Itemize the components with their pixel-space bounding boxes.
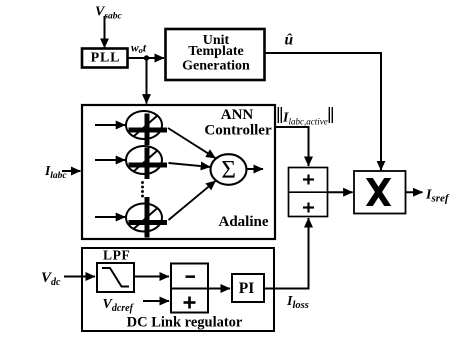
svg-text:DC Link regulator: DC Link regulator bbox=[127, 315, 243, 331]
svg-text:û: û bbox=[285, 31, 294, 48]
svg-text:Vdc: Vdc bbox=[41, 270, 61, 288]
svg-text:Vdcref: Vdcref bbox=[103, 297, 135, 314]
svg-text:Σ: Σ bbox=[221, 156, 236, 183]
svg-text:Ilabc,active: Ilabc,active bbox=[282, 111, 328, 127]
svg-text:PI: PI bbox=[239, 280, 255, 297]
svg-text:Ilabc: Ilabc bbox=[44, 163, 67, 181]
svg-text:wot: wot bbox=[131, 43, 147, 56]
svg-text:PLL: PLL bbox=[91, 51, 121, 66]
svg-text:Adaline: Adaline bbox=[218, 214, 268, 230]
svg-text:Controller: Controller bbox=[204, 123, 272, 139]
svg-text:LPF: LPF bbox=[103, 248, 130, 263]
svg-text:Generation: Generation bbox=[182, 58, 250, 73]
svg-text:ANN: ANN bbox=[221, 107, 254, 123]
svg-text:Template: Template bbox=[188, 44, 243, 59]
svg-text:Vsabc: Vsabc bbox=[95, 5, 123, 22]
svg-text:Isref: Isref bbox=[425, 188, 450, 205]
svg-text:Iloss: Iloss bbox=[286, 294, 309, 311]
